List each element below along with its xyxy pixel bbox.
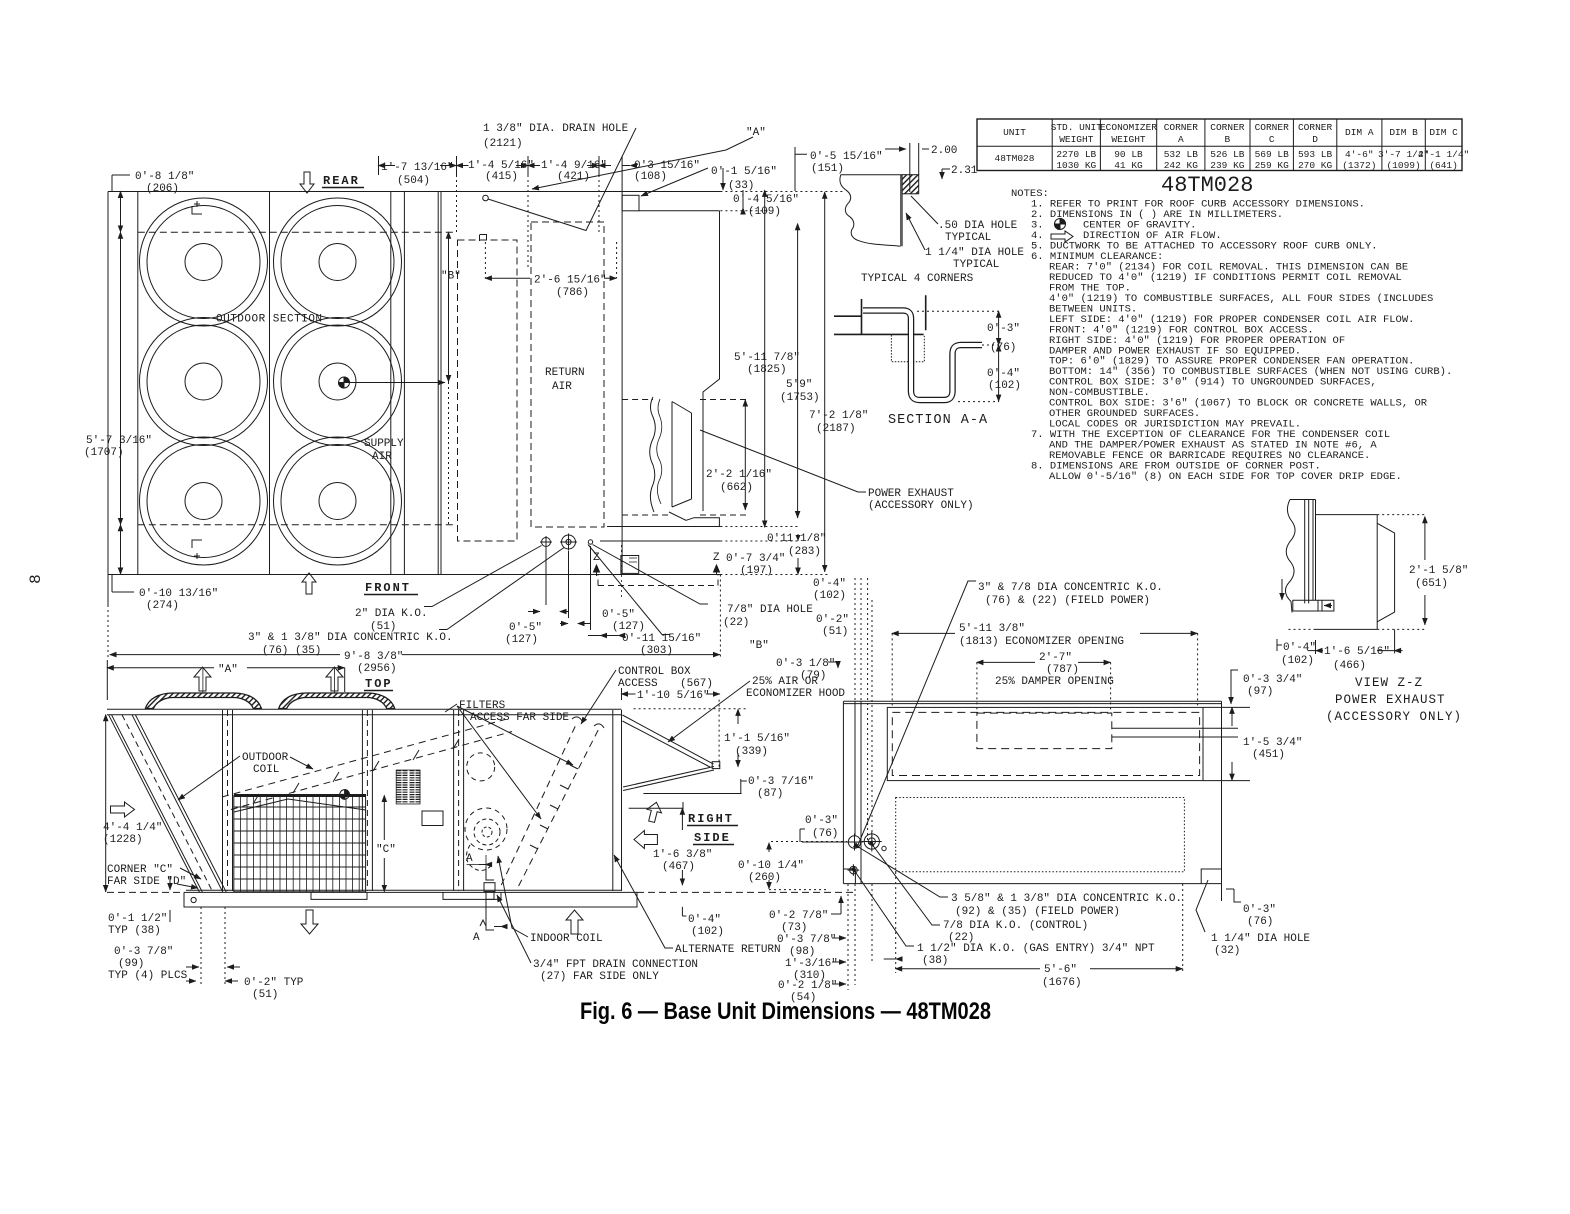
top dim arrows [379, 165, 396, 167]
econ hood tip [712, 762, 720, 769]
filters leaders [445, 704, 457, 712]
svg-text:0'-10 13/16": 0'-10 13/16" [139, 588, 218, 600]
dim 0-1 1/2 [169, 876, 171, 890]
shelf arrow [1324, 605, 1332, 607]
svg-text:0'-5 15/16": 0'-5 15/16" [810, 151, 883, 163]
svg-text:242 KG: 242 KG [1164, 160, 1199, 171]
mesh tent line [234, 799, 366, 812]
right side up arrow [644, 800, 663, 823]
0-10 1/4 dim [768, 843, 770, 852]
A section mark lower [480, 894, 494, 930]
svg-text:2270 LB: 2270 LB [1056, 149, 1096, 160]
svg-text:(76) & (22) (FIELD POWER): (76) & (22) (FIELD POWER) [985, 595, 1150, 607]
column pair 1 [223, 710, 233, 891]
svg-text:(1825): (1825) [747, 364, 787, 376]
left top dim bracket 0-8 1/8 [112, 175, 130, 191]
svg-text:5'-6": 5'-6" [1044, 964, 1077, 976]
svg-text:B: B [1225, 134, 1231, 145]
svg-text:3" & 1 3/8" DIA CONCENTRIC K.O: 3" & 1 3/8" DIA CONCENTRIC K.O. [248, 632, 453, 644]
gas ko circle [848, 864, 860, 876]
svg-text:(283): (283) [788, 546, 821, 558]
A section mark upper [467, 855, 486, 867]
svg-text:(2187): (2187) [816, 423, 856, 435]
econ hood top dotted [634, 708, 747, 710]
bottom shelf [1293, 600, 1334, 611]
mesh grille frame [234, 796, 366, 892]
down air arrow [301, 910, 318, 934]
section A-A lower box [891, 335, 924, 362]
svg-text:(127): (127) [612, 621, 645, 633]
top notch rect [622, 195, 639, 211]
indoor coil leader [498, 856, 528, 937]
svg-text:1 1/2" DIA K.O. (GAS ENTRY) 3: 1 1/2" DIA K.O. (GAS ENTRY) 3/4" NPT [917, 943, 1155, 955]
fan circle r2c1 [140, 318, 268, 446]
extension verticals from plan [855, 578, 872, 840]
svg-text:POWER EXHAUST: POWER EXHAUST [1335, 693, 1446, 707]
svg-text:1'-5 3/4": 1'-5 3/4" [1243, 737, 1302, 749]
svg-text:1'-10 5/16": 1'-10 5/16" [637, 690, 710, 702]
svg-text:(1676): (1676) [1042, 977, 1082, 989]
base foot pads [311, 892, 501, 899]
svg-text:0'-4": 0'-4" [987, 368, 1020, 380]
louver hatch blocks [399, 770, 418, 804]
svg-text:CORNER: CORNER [1298, 122, 1333, 133]
condenser CG dot [340, 790, 350, 800]
svg-text:(38): (38) [922, 955, 948, 967]
fan circle r3c2 [274, 437, 402, 565]
1-6 5/16 dim [1316, 629, 1395, 654]
svg-text:1'-1 5/16": 1'-1 5/16" [724, 733, 790, 745]
filter dashed band [501, 723, 598, 887]
gas entry box [621, 556, 639, 574]
svg-text:ACCESS FAR SIDE: ACCESS FAR SIDE [470, 712, 569, 724]
svg-text:(2121): (2121) [483, 138, 523, 150]
power exhaust prism [672, 402, 692, 508]
svg-text:RIGHT: RIGHT [688, 812, 734, 826]
svg-text:(415): (415) [485, 171, 518, 183]
svg-text:0'-4": 0'-4" [688, 914, 721, 926]
outdoor coil leaders [178, 756, 240, 800]
svg-text:(197): (197) [740, 565, 773, 577]
mesh grille verticals [240, 796, 359, 892]
right section divider [621, 192, 623, 575]
svg-text:(ACCESSORY ONLY): (ACCESSORY ONLY) [868, 500, 974, 512]
svg-text:ECONOMIZER: ECONOMIZER [1100, 122, 1157, 133]
unit top edge [843, 701, 1221, 703]
unit right columns [613, 710, 622, 891]
svg-text:VIEW Z-Z: VIEW Z-Z [1355, 676, 1423, 690]
svg-text:239 KG: 239 KG [1210, 160, 1245, 171]
svg-text:COIL: COIL [253, 764, 279, 776]
left small dim [1281, 579, 1283, 600]
svg-text:2.31: 2.31 [951, 165, 978, 177]
svg-text:(1753): (1753) [780, 392, 820, 404]
field power KO big [846, 834, 863, 851]
svg-text:4'-6": 4'-6" [1345, 149, 1374, 160]
svg-text:ALTERNATE RETURN: ALTERNATE RETURN [675, 944, 781, 956]
small circle right [882, 846, 886, 850]
svg-text:0'-4": 0'-4" [813, 578, 846, 590]
svg-text:"A": "A" [746, 127, 766, 139]
svg-text:(102): (102) [988, 380, 1021, 392]
box dotted extensions [1286, 515, 1427, 630]
svg-text:90 LB: 90 LB [1114, 149, 1143, 160]
svg-text:(22): (22) [723, 617, 749, 629]
svg-text:SIDE: SIDE [694, 831, 731, 845]
svg-text:DIM A: DIM A [1345, 127, 1374, 138]
2-2 1/16 dim [744, 400, 746, 510]
5-11 3/8 dim [892, 632, 955, 634]
hollow up arrow 2 [326, 667, 343, 691]
REAR arrow [300, 172, 314, 193]
column pair 2 [362, 710, 372, 891]
FRONT arrow [302, 573, 316, 594]
fan5 corner mark [192, 540, 202, 559]
power exhaust dashed bounds [622, 400, 748, 516]
svg-text:0'-2": 0'-2" [816, 614, 849, 626]
svg-text:(1228): (1228) [103, 834, 143, 846]
svg-text:C: C [1269, 134, 1275, 145]
svg-text:1 1/4" DIA HOLE: 1 1/4" DIA HOLE [1211, 933, 1310, 945]
svg-text:1'-6 3/8": 1'-6 3/8" [653, 849, 712, 861]
drain fitting [484, 883, 495, 892]
small box [422, 811, 443, 826]
base hole [191, 897, 196, 902]
2-7 dim [977, 661, 1035, 663]
svg-text:(33): (33) [728, 180, 754, 192]
condenser top bar [234, 794, 366, 797]
svg-text:0'-1 5/16": 0'-1 5/16" [711, 166, 777, 178]
0-3 7/16 dim [740, 779, 742, 793]
svg-text:ALLOW 0'-5/16" (8) ON EACH SID: ALLOW 0'-5/16" (8) ON EACH SIDE FOR TOP … [1049, 471, 1402, 483]
svg-text:TOP: TOP [365, 677, 393, 691]
svg-text:2.00: 2.00 [931, 145, 957, 157]
drain leader [497, 895, 531, 963]
control box leader [581, 670, 616, 724]
svg-text:1'-6 5/16": 1'-6 5/16" [1324, 646, 1390, 658]
svg-text:STD. UNIT: STD. UNIT [1051, 122, 1103, 133]
note3 CG glyph [1055, 219, 1066, 230]
svg-text:2'-1 5/8": 2'-1 5/8" [1409, 565, 1468, 577]
svg-text:(27) FAR SIDE ONLY: (27) FAR SIDE ONLY [540, 971, 659, 983]
A leader [532, 137, 753, 189]
svg-text:CORNER: CORNER [1210, 122, 1245, 133]
svg-text:0'-2 7/8": 0'-2 7/8" [769, 910, 828, 922]
svg-text:(102): (102) [1281, 655, 1314, 667]
svg-text:0'-3 7/8": 0'-3 7/8" [777, 934, 836, 946]
svg-text:Z: Z [713, 552, 720, 564]
corner leader [180, 868, 201, 879]
right side left arrow [634, 831, 657, 849]
svg-text:(102): (102) [691, 926, 724, 938]
left dim line [120, 192, 122, 233]
right section bottom frame [600, 512, 720, 541]
bottom-left dim bracket [112, 575, 134, 592]
filter band hatches [530, 765, 578, 849]
table header text [1003, 122, 1458, 145]
section A-A s-channel inner [863, 311, 982, 401]
svg-text:WEIGHT: WEIGHT [1059, 134, 1094, 145]
base dashed line [107, 891, 855, 893]
damper extension lines [1112, 728, 1238, 737]
svg-text:CORNER: CORNER [1164, 122, 1199, 133]
fan section right double edge [437, 192, 439, 575]
svg-text:(421): (421) [557, 171, 590, 183]
1 1/4 dia hole label [1196, 880, 1208, 932]
center of gravity symbol [339, 377, 350, 388]
svg-text:593 LB: 593 LB [1298, 149, 1333, 160]
note4 airflow glyph [1051, 231, 1073, 242]
exhaust box [1316, 515, 1378, 630]
svg-text:(1707): (1707) [84, 447, 124, 459]
svg-text:(1813) ECONOMIZER OPENING: (1813) ECONOMIZER OPENING [959, 636, 1124, 648]
svg-text:5'9": 5'9" [786, 379, 812, 391]
svg-text:A: A [466, 853, 473, 865]
svg-text:0'-11 15/16": 0'-11 15/16" [622, 633, 701, 645]
unit top rail [107, 709, 622, 715]
svg-text:POWER EXHAUST: POWER EXHAUST [868, 488, 954, 500]
svg-text:Fig. 6 — Base Unit Dimensions: Fig. 6 — Base Unit Dimensions — 48TM028 [580, 998, 991, 1025]
svg-text:Z: Z [593, 552, 600, 564]
svg-text:(76) (35): (76) (35) [262, 645, 321, 657]
1-1 5/16 dim [718, 700, 720, 768]
svg-text:7/8 DIA K.O. (CONTROL): 7/8 DIA K.O. (CONTROL) [943, 920, 1088, 932]
top dim row ticks [379, 156, 623, 191]
svg-text:0'-2 1/8": 0'-2 1/8" [778, 980, 837, 992]
bottom dim wires [546, 546, 591, 630]
field power KO double [862, 832, 882, 852]
svg-text:5'-7 3/16": 5'-7 3/16" [86, 435, 152, 447]
svg-text:(641): (641) [1429, 160, 1458, 171]
svg-text:3/4" FPT DRAIN CONNECTION: 3/4" FPT DRAIN CONNECTION [533, 959, 698, 971]
blower inner circles [474, 819, 500, 845]
table column lines [1052, 119, 1425, 171]
column pair 3 [454, 710, 464, 891]
economizer inner dashed [892, 712, 1199, 775]
svg-text:(108): (108) [634, 171, 667, 183]
svg-text:AIR: AIR [372, 451, 392, 463]
svg-text:INDOOR COIL: INDOOR COIL [530, 933, 603, 945]
svg-text:(467): (467) [662, 861, 695, 873]
corner detail right edge [901, 175, 902, 247]
unit right edge [1221, 701, 1223, 883]
mesh grille horizontals [234, 807, 366, 879]
svg-text:FRONT: FRONT [365, 581, 411, 595]
svg-text:3" & 7/8 DIA CONCENTRIC K.O.: 3" & 7/8 DIA CONCENTRIC K.O. [978, 582, 1163, 594]
right 0-3 76 dim [1221, 884, 1223, 901]
svg-text:5'-11 7/8": 5'-11 7/8" [734, 352, 800, 364]
svg-text:OUTDOOR: OUTDOOR [242, 752, 289, 764]
svg-text:(73): (73) [781, 922, 807, 934]
svg-text:OUTDOOR SECTION: OUTDOOR SECTION [216, 314, 323, 326]
svg-text:"A": "A" [218, 664, 238, 676]
svg-text:0'-3 3/4": 0'-3 3/4" [1243, 674, 1302, 686]
5-6 bottom dim [896, 872, 1183, 973]
svg-text:(92) & (35) (FIELD POWER): (92) & (35) (FIELD POWER) [955, 906, 1120, 918]
econ hood upper brace [622, 715, 713, 767]
svg-text:0'-1 1/2": 0'-1 1/2" [108, 913, 167, 925]
svg-text:(87): (87) [757, 788, 783, 800]
svg-text:UNIT: UNIT [1003, 127, 1026, 138]
svg-text:(303): (303) [640, 645, 673, 657]
svg-text:(1372): (1372) [1342, 160, 1376, 171]
svg-text:"B": "B" [749, 640, 769, 652]
right dims verticals [764, 190, 766, 527]
section A-A dims [917, 311, 999, 401]
0-3 3/4 dim right [1231, 670, 1238, 704]
svg-text:(99): (99) [118, 958, 144, 970]
blower dashed circle top [467, 753, 495, 781]
svg-text:1030 KG: 1030 KG [1056, 160, 1096, 171]
dim 1-10 5/16 [622, 693, 636, 695]
dim 0-2 typ [225, 980, 238, 982]
svg-text:8: 8 [27, 574, 45, 584]
svg-text:(ACCESSORY ONLY): (ACCESSORY ONLY) [1326, 710, 1462, 724]
svg-text:(651): (651) [1415, 578, 1448, 590]
svg-text:CONTROL BOX: CONTROL BOX [618, 666, 691, 678]
svg-text:DIM B: DIM B [1389, 127, 1418, 138]
svg-text:TYPICAL: TYPICAL [945, 232, 991, 244]
svg-text:270 KG: 270 KG [1298, 160, 1333, 171]
svg-text:2'-7": 2'-7" [1039, 652, 1072, 664]
svg-text:A: A [473, 932, 480, 944]
svg-text:AIR: AIR [552, 381, 572, 393]
1-6 3/8 dim [681, 808, 683, 830]
B dashed duct [458, 240, 518, 541]
svg-text:FAR SIDE "D": FAR SIDE "D" [107, 876, 186, 888]
A overall dim [107, 660, 344, 700]
svg-text:569 LB: 569 LB [1255, 149, 1290, 160]
0-4 dim [1277, 639, 1282, 651]
svg-text:0'-5": 0'-5" [602, 609, 635, 621]
damper opening dashed [977, 713, 1112, 749]
exhaust trapezoid [1377, 523, 1394, 622]
svg-text:4'-4 1/4": 4'-4 1/4" [103, 822, 162, 834]
return air dashed duct [531, 222, 604, 527]
svg-text:(567): (567) [680, 678, 713, 690]
svg-text:(102): (102) [813, 590, 846, 602]
left extension verticals lower [848, 884, 872, 990]
left corner post [109, 715, 227, 892]
svg-text:(97): (97) [1247, 686, 1273, 698]
0-3 76 dim left [800, 829, 805, 842]
dim line left of RIGHT [629, 802, 683, 814]
svg-text:3 5/8" & 1 3/8" DIA CONCENTRIC: 3 5/8" & 1 3/8" DIA CONCENTRIC K.O. [951, 893, 1182, 905]
knockout circles under plan [540, 536, 552, 548]
B dim vline [448, 232, 450, 382]
svg-text:(451): (451) [1252, 749, 1285, 761]
svg-text:REAR: REAR [323, 174, 360, 188]
svg-text:RETURN: RETURN [545, 367, 585, 379]
svg-text:(466): (466) [1333, 660, 1366, 672]
svg-text:0'11 1/8": 0'11 1/8" [767, 533, 826, 545]
svg-text:1 1/4" DIA HOLE: 1 1/4" DIA HOLE [925, 247, 1024, 259]
svg-text:48TM028: 48TM028 [1161, 173, 1253, 198]
svg-text:(98): (98) [789, 946, 815, 958]
svg-text:TYP (4) PLCS: TYP (4) PLCS [108, 970, 188, 982]
svg-text:.50 DIA HOLE: .50 DIA HOLE [938, 220, 1018, 232]
svg-text:5'-11 3/8": 5'-11 3/8" [959, 623, 1025, 635]
svg-text:0'-3 7/16": 0'-3 7/16" [748, 776, 814, 788]
svg-text:(32): (32) [1214, 945, 1240, 957]
svg-text:0'-7 3/4": 0'-7 3/4" [726, 553, 785, 565]
svg-text:25% DAMPER OPENING: 25% DAMPER OPENING [995, 676, 1114, 688]
svg-text:TYPICAL 4 CORNERS: TYPICAL 4 CORNERS [861, 273, 974, 285]
base channel [184, 892, 637, 907]
svg-text:0'-3 1/8": 0'-3 1/8" [776, 658, 835, 670]
KO leaders lower [860, 848, 948, 897]
drain hole [483, 195, 489, 201]
svg-text:526 LB: 526 LB [1210, 149, 1245, 160]
svg-text:SUPPLY: SUPPLY [364, 438, 404, 450]
section A-A curb lines [834, 295, 926, 334]
svg-text:(260): (260) [748, 872, 781, 884]
unit base rail [184, 890, 637, 892]
bottom left step [843, 869, 855, 884]
hollow up arrow 1 [194, 667, 211, 691]
power exhaust wavy shape [650, 397, 656, 512]
2.31 dim [942, 169, 950, 179]
svg-text:(2956): (2956) [357, 663, 397, 675]
svg-text:A: A [1178, 134, 1184, 145]
corner hatched tab [902, 175, 919, 194]
svg-text:9'-8 3/8": 9'-8 3/8" [344, 651, 403, 663]
control box dotted rect [896, 798, 1185, 872]
duct corner mark [480, 235, 487, 242]
svg-text:1 3/8" DIA. DRAIN HOLE: 1 3/8" DIA. DRAIN HOLE [483, 123, 629, 135]
svg-text:TYP (38): TYP (38) [108, 925, 161, 937]
fan circle r1c1 [140, 198, 268, 326]
econ hood lower brace [623, 767, 714, 791]
svg-text:0'-10 1/4": 0'-10 1/4" [738, 860, 804, 872]
svg-text:259 KG: 259 KG [1255, 160, 1290, 171]
drain hole leader [488, 128, 636, 231]
economizer opening outer [887, 707, 1203, 780]
svg-text:1'-3/16": 1'-3/16" [785, 958, 838, 970]
unit left edge [843, 701, 861, 883]
KO leader wires [424, 546, 542, 607]
svg-text:(787): (787) [1046, 664, 1079, 676]
svg-text:(79): (79) [800, 670, 826, 682]
svg-text:ACCESS: ACCESS [618, 678, 658, 690]
filter band hook [572, 717, 604, 728]
svg-text:0'-3": 0'-3" [987, 323, 1020, 335]
svg-text:TYPICAL: TYPICAL [953, 259, 999, 271]
svg-text:(127): (127) [505, 634, 538, 646]
supply-air partition lines [391, 192, 405, 575]
2-1 5/8 dim [1424, 517, 1426, 560]
blower dashed blob [465, 808, 507, 850]
dashed section lines [138, 232, 455, 525]
svg-text:(76): (76) [812, 828, 838, 840]
svg-text:2" DIA K.O.: 2" DIA K.O. [355, 608, 428, 620]
svg-text:(76): (76) [1247, 916, 1273, 928]
svg-text:(51): (51) [252, 989, 278, 1001]
svg-text:(76): (76) [990, 342, 1016, 354]
svg-text:0'-3 7/8": 0'-3 7/8" [114, 946, 173, 958]
wall posts [1305, 500, 1316, 604]
svg-text:CORNER "C": CORNER "C" [107, 864, 173, 876]
Z marks [620, 545, 622, 600]
plan outer boundary [108, 192, 720, 606]
svg-text:DIM C: DIM C [1429, 127, 1458, 138]
fan circle r2c2 [274, 318, 402, 446]
corner hole leaders [911, 196, 938, 224]
concentric KO leader [858, 581, 976, 845]
svg-text:"C": "C" [376, 844, 396, 856]
svg-text:2'-6 15/16": 2'-6 15/16" [534, 275, 607, 287]
svg-text:(339): (339) [735, 746, 768, 758]
